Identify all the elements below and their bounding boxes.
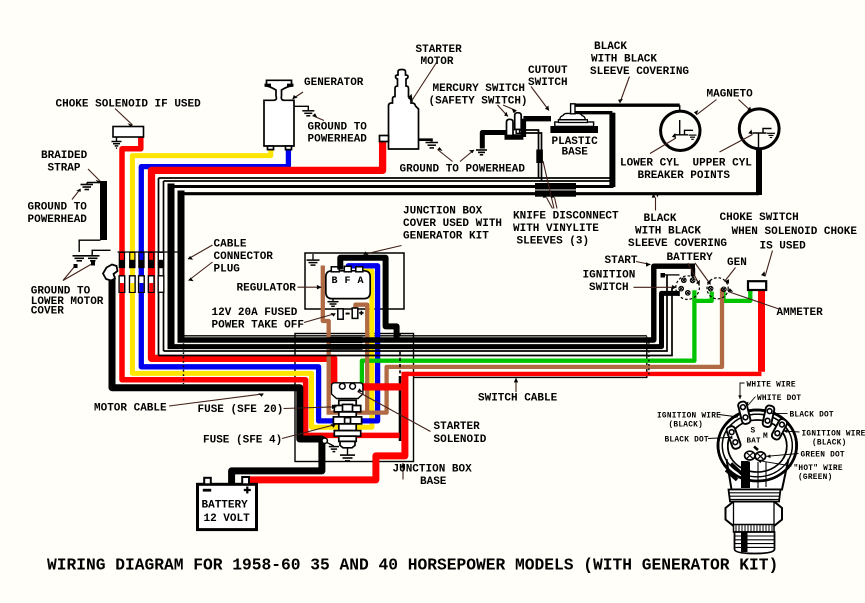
svg-text:CONNECTOR: CONNECTOR (214, 251, 274, 263)
switch cable outline (414, 337, 647, 378)
wire brown: power take-off to solenoid (355, 305, 367, 415)
dashed cable boundary right (648, 342, 650, 377)
svg-text:BRAIDED: BRAIDED (41, 150, 88, 162)
svg-text:M: M (763, 433, 768, 441)
svg-text:WITH VINYLITE: WITH VINYLITE (513, 223, 599, 235)
svg-text:BLACK DOT: BLACK DOT (665, 437, 709, 445)
wire black vertical col 1 (168, 184, 175, 347)
svg-text:JUNCTION BOX: JUNCTION BOX (393, 464, 473, 476)
cable connector plug lower row (119, 276, 184, 293)
svg-text:START: START (605, 255, 638, 267)
motor cable outline (184, 301, 647, 338)
svg-text:(GREEN): (GREEN) (798, 474, 833, 482)
svg-text:PLUG: PLUG (214, 264, 241, 276)
12V fused power take off (338, 309, 343, 319)
svg-text:SLEEVES (3): SLEEVES (3) (517, 236, 590, 248)
svg-text:BREAKER POINTS: BREAKER POINTS (638, 170, 731, 182)
svg-text:SLEEVE COVERING: SLEEVE COVERING (628, 238, 727, 250)
key switch BAT terminals (745, 451, 755, 460)
key switch threaded neck (729, 490, 781, 502)
starter motor (380, 70, 419, 150)
wire black sleeve: cutout down to bus (574, 113, 612, 187)
wire red: choke solenoid to fuse stack (122, 136, 400, 436)
svg-text:WHITE DOT: WHITE DOT (757, 395, 801, 403)
key switch lug left (726, 425, 742, 450)
svg-text:KNIFE DISCONNECT: KNIFE DISCONNECT (513, 211, 619, 223)
wire white-pair verticals at connector (159, 178, 164, 356)
label arrows (63, 63, 779, 480)
svg-text:BLACK DOT: BLACK DOT (790, 412, 834, 420)
wire: ground 2 lead (92, 250, 110, 255)
regulator (326, 271, 370, 299)
wire red: solenoid terminal to red vertical (356, 383, 405, 390)
svg-text:SWITCH: SWITCH (528, 77, 568, 89)
ammeter box (748, 281, 766, 290)
cutout switch (550, 126, 598, 133)
key switch small labels (657, 382, 865, 482)
black junction bar block (330, 337, 363, 343)
wire green to ammeter (724, 290, 751, 301)
ground: lower motor cover 2 (86, 256, 100, 261)
svg-text:BLACK: BLACK (644, 213, 677, 225)
key switch label pointer lines (708, 383, 800, 466)
svg-text:WITH BLACK: WITH BLACK (591, 54, 657, 66)
magneto lower cyl breaker points (661, 111, 700, 150)
svg-text:REGULATOR: REGULATOR (237, 283, 297, 295)
svg-text:SLEEVE COVERING: SLEEVE COVERING (590, 66, 689, 78)
svg-text:BLACK: BLACK (594, 41, 627, 53)
wire red: ammeter to battery positive (250, 290, 762, 480)
wire black: mercury base (505, 119, 552, 137)
wire brown: solenoid bar to GEN terminal (327, 289, 723, 413)
starter solenoid terminal bracket (332, 383, 363, 399)
cable clamp blob (103, 265, 118, 281)
svg-text:(BLACK): (BLACK) (812, 440, 847, 448)
svg-text:SWITCH: SWITCH (589, 282, 629, 294)
wire white-pair lower bus to ignition switch (159, 275, 673, 356)
terminal square dot (661, 273, 666, 278)
svg-text:STARTER: STARTER (434, 421, 481, 433)
ground: strap top (87, 183, 104, 185)
key switch hex nut (726, 502, 783, 527)
svg-text:MAGNETO: MAGNETO (707, 89, 754, 101)
wire red thick: starter motor to solenoid terminal (152, 140, 383, 385)
ground: generator (294, 106, 308, 110)
wire black upper bus 2 to upper-cyl loop (181, 192, 759, 195)
starter solenoid fuse stack (333, 400, 361, 448)
svg-text:BAT: BAT (747, 438, 762, 446)
ground: mercury switch (476, 150, 487, 155)
svg-text:SWITCH CABLE: SWITCH CABLE (478, 393, 558, 405)
generator (264, 80, 294, 149)
svg-text:STRAP: STRAP (48, 163, 81, 175)
ground: under solenoid (347, 448, 349, 455)
svg-text:POWERHEAD: POWERHEAD (308, 134, 368, 146)
svg-text:(SAFETY SWITCH): (SAFETY SWITCH) (429, 96, 528, 108)
key switch lower barrel (735, 532, 775, 554)
wire black sleeve: cutout to lower-cyl breaker (572, 103, 680, 106)
svg-text:WITH BLACK: WITH BLACK (635, 226, 701, 238)
wire white-pair upper bus to mercury switch (159, 178, 611, 181)
svg-text:GEN: GEN (727, 257, 747, 269)
mercury switch capsule 1 (507, 119, 514, 135)
magneto upper cyl breaker points (739, 109, 779, 149)
svg-text:BATTERY: BATTERY (202, 499, 249, 511)
junction box cover (305, 253, 404, 309)
svg-text:CHOKE SWITCH: CHOKE SWITCH (720, 212, 799, 224)
wire black: regulator B to bus (340, 258, 396, 339)
key switch knurled ring (734, 525, 775, 533)
svg-text:BATTERY: BATTERY (667, 252, 714, 264)
choke solenoid box (113, 127, 144, 138)
svg-text:SOLENOID: SOLENOID (434, 434, 487, 446)
svg-text:AMMETER: AMMETER (777, 307, 824, 319)
svg-text:A: A (358, 276, 364, 287)
wire black vertical col 2 (178, 191, 185, 341)
wire black: motor cable to battery negative with ground tap (112, 276, 322, 484)
svg-text:BASE: BASE (562, 146, 589, 158)
wire yellow: generator to regulator A via solenoid (132, 147, 372, 427)
arrowheads (74, 94, 766, 468)
svg-text:B: B (332, 276, 338, 287)
svg-text:BASE: BASE (420, 476, 447, 488)
key switch shaft collar (727, 459, 789, 490)
svg-text:JUNCTION BOX: JUNCTION BOX (403, 206, 483, 218)
svg-text:12V 20A FUSED: 12V 20A FUSED (212, 307, 298, 319)
key switch lug top-left (737, 401, 751, 425)
svg-text:COVER: COVER (31, 306, 64, 318)
svg-text:IGNITION: IGNITION (583, 270, 636, 282)
svg-text:MOTOR CABLE: MOTOR CABLE (94, 403, 167, 415)
svg-text:UPPER CYL: UPPER CYL (693, 158, 753, 170)
wire black battery stub (691, 268, 695, 277)
key switch body (718, 410, 797, 481)
svg-text:GENERATOR: GENERATOR (304, 77, 364, 89)
svg-text:CUTOUT: CUTOUT (528, 65, 568, 77)
wire red bus: switch cable to ammeter (405, 372, 762, 376)
wire black lower bus A to ignition switch (178, 266, 696, 340)
dashed line in box (399, 333, 401, 376)
svg-text:S: S (751, 428, 756, 436)
knife disconnect bar 1 (535, 183, 576, 190)
svg-text:MOTOR: MOTOR (421, 56, 454, 68)
wire green: solenoid to ignition switch (362, 290, 695, 385)
svg-text:12 VOLT: 12 VOLT (204, 513, 251, 525)
ground: starter motor (419, 140, 432, 142)
svg-text:IGNITION WIRE: IGNITION WIRE (657, 413, 721, 421)
svg-text:WIRING DIAGRAM FOR 1958-60 35: WIRING DIAGRAM FOR 1958-60 35 AND 40 HOR… (47, 556, 778, 575)
wire white-pair from mercury switch (520, 130, 542, 181)
braided strap (100, 181, 107, 240)
solenoid terminal circles (339, 383, 345, 389)
connector bar (118, 251, 185, 253)
wire black lower bus B to ignition switch (168, 293, 680, 346)
svg-text:FUSE (SFE 4): FUSE (SFE 4) (203, 435, 282, 447)
key switch lug right (771, 418, 789, 441)
svg-text:GROUND TO POWERHEAD: GROUND TO POWERHEAD (400, 164, 526, 176)
knife disconnect vertical (536, 150, 543, 164)
svg-text:POWER TAKE OFF: POWER TAKE OFF (212, 320, 304, 332)
svg-text:CHOKE SOLENOID IF USED: CHOKE SOLENOID IF USED (56, 99, 202, 111)
ground: black wire tap (322, 438, 327, 443)
svg-text:LOWER CYL: LOWER CYL (620, 158, 680, 170)
wire black upper bus 1 to magneto loop (171, 185, 614, 188)
junction box base (295, 334, 414, 462)
dashed cable boundary left (183, 339, 185, 384)
svg-text:F: F (345, 276, 351, 287)
gen dashed circle (707, 278, 728, 299)
svg-text:GROUND TO: GROUND TO (308, 122, 368, 134)
svg-text:GENERATOR KIT: GENERATOR KIT (403, 231, 489, 243)
key switch lug top-right (762, 405, 775, 428)
svg-text:FUSE (SFE 20): FUSE (SFE 20) (198, 404, 284, 416)
knife disconnect bar 2 (535, 190, 576, 196)
svg-text:GROUND TO: GROUND TO (28, 202, 88, 214)
ground: choke solenoid (116, 137, 118, 141)
wire green jog to GEN (694, 292, 711, 301)
wire black vertical in box (399, 376, 402, 441)
wire blue: generator to regulator F via solenoid (141, 147, 377, 421)
svg-text:IS USED: IS USED (760, 241, 807, 253)
svg-text:MERCURY SWITCH: MERCURY SWITCH (433, 83, 525, 95)
svg-text:CABLE: CABLE (214, 239, 247, 251)
svg-text:(BLACK): (BLACK) (669, 422, 704, 430)
svg-text:"HOT" WIRE: "HOT" WIRE (794, 465, 843, 473)
mercury switch capsule 2 (515, 113, 522, 130)
svg-text:COVER USED WITH: COVER USED WITH (403, 218, 502, 230)
cable connector plug upper row (119, 252, 185, 268)
ignition switch dashed circle (676, 276, 700, 300)
ground: lower motor cover 1 (73, 256, 87, 261)
wire black: upper-cyl loop corner (756, 149, 762, 196)
svg-text:WHITE WIRE: WHITE WIRE (747, 382, 796, 390)
wire brown: regulator down to solenoid (323, 266, 329, 413)
wire: strap to ground 1 (79, 240, 100, 252)
svg-text:GREEN DOT: GREEN DOT (801, 452, 845, 460)
svg-text:STARTER: STARTER (416, 44, 463, 56)
ground: junction cover top-left (312, 254, 314, 260)
svg-text:POWERHEAD: POWERHEAD (28, 214, 88, 226)
key switch wires bottom-left (726, 464, 742, 481)
wire black: mercury switch to ground (482, 133, 506, 149)
ground: under regulator (329, 299, 340, 302)
battery (198, 484, 257, 529)
svg-text:WHEN SOLENOID CHOKE: WHEN SOLENOID CHOKE (732, 226, 858, 238)
svg-text:IGNITION WIRE: IGNITION WIRE (802, 431, 865, 439)
